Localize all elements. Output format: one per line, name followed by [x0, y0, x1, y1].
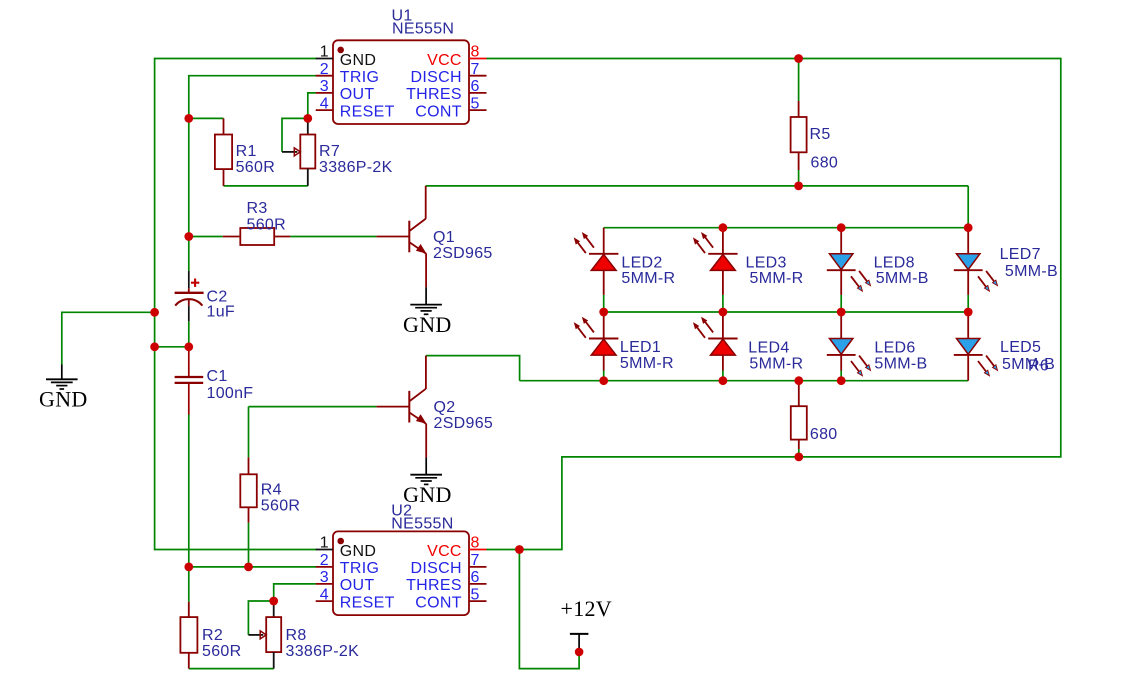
svg-text:3386P-2K: 3386P-2K	[319, 159, 393, 176]
svg-text:DISCH: DISCH	[411, 560, 462, 577]
wire R2-R8 bottom link	[189, 668, 274, 670]
svg-text:5MM-R: 5MM-R	[749, 355, 803, 372]
svg-text:R3: R3	[247, 200, 268, 217]
svg-text:LED1: LED1	[620, 339, 661, 356]
wire U1 pin3 OUT to R7 top	[308, 93, 316, 119]
U1 pin 8 stub	[469, 58, 487, 60]
svg-text:5: 5	[471, 586, 480, 603]
wire R3 left from junction	[189, 236, 223, 238]
svg-text:DISCH: DISCH	[411, 69, 462, 86]
svg-text:3: 3	[320, 569, 329, 586]
wire VCC loop: U1 pin8 right edge down and back to U2 pin8	[487, 59, 1061, 550]
svg-text:CONT: CONT	[415, 594, 462, 611]
junction R5 bottom	[794, 182, 803, 191]
svg-text:8: 8	[471, 535, 480, 552]
svg-text:7: 7	[471, 552, 480, 569]
wire U1 pin2 TRIG vertical column upper	[189, 76, 316, 271]
svg-text:GND: GND	[403, 312, 452, 337]
junction GND branch	[150, 308, 159, 317]
power +12V symbol	[570, 634, 589, 656]
resistor R5	[791, 101, 807, 170]
svg-text:1: 1	[320, 535, 329, 552]
LED7 blue	[954, 228, 998, 295]
svg-text:LED4: LED4	[748, 340, 789, 357]
wire link between verticals at y=346.8	[155, 346, 189, 348]
U1 pin 7 stub	[469, 75, 487, 77]
svg-text:560R: 560R	[261, 498, 300, 515]
svg-text:2SD965: 2SD965	[434, 415, 494, 432]
transistor Q2	[376, 356, 426, 458]
svg-text:4: 4	[320, 95, 329, 112]
U2 pin 8 stub	[469, 549, 487, 551]
svg-text:CONT: CONT	[415, 103, 462, 120]
U2 pin 6 stub	[469, 583, 487, 585]
svg-text:GND: GND	[39, 387, 88, 412]
svg-text:RESET: RESET	[340, 594, 395, 611]
svg-text:5MM-R: 5MM-R	[621, 270, 675, 287]
junction R1 / pin2 column	[184, 114, 193, 123]
junction mid rail LED8	[837, 308, 846, 317]
wire LED2 green tail	[603, 295, 605, 312]
U2 pin 1 stub	[316, 549, 333, 551]
wire R3 right to Q1 base	[290, 236, 376, 238]
wire LED4 green tail	[722, 371, 724, 381]
svg-text:R5: R5	[810, 126, 831, 143]
svg-text:C1: C1	[207, 368, 228, 385]
U1 pin 1 stub	[316, 58, 333, 60]
ground under Q2	[410, 457, 442, 484]
svg-text:R1: R1	[236, 143, 257, 160]
svg-text:Q2: Q2	[434, 399, 456, 416]
svg-text:5MM-R: 5MM-R	[750, 270, 804, 287]
wire between C2 and junction	[188, 321, 190, 347]
U1 pin numbers	[320, 44, 480, 113]
wire LED7 column link from rail	[967, 186, 969, 228]
U1 pin names	[340, 52, 462, 121]
junction mid rail LED3	[719, 308, 728, 317]
ground left	[46, 365, 78, 390]
op-amp U2 NE555N body	[333, 531, 469, 615]
junction bottom rail LED6	[837, 376, 846, 385]
svg-text:RESET: RESET	[340, 103, 395, 120]
wire below C1 to U2 pin2 junction	[188, 415, 190, 568]
svg-text:Q1: Q1	[433, 229, 455, 246]
svg-text:LED6: LED6	[874, 340, 915, 357]
trimmer R7	[282, 118, 315, 185]
wire R1-R7 bottom link	[224, 185, 308, 187]
wire R4 top green lead	[248, 407, 250, 458]
wire R1 top branch	[189, 117, 224, 119]
svg-text:1: 1	[320, 44, 329, 61]
junction LED3 top	[719, 223, 728, 232]
svg-text:GND: GND	[340, 52, 376, 69]
junction R3 branch	[184, 232, 193, 241]
svg-text:4: 4	[320, 586, 329, 603]
svg-text:OUT: OUT	[340, 86, 375, 103]
U2 pin 5 stub	[469, 600, 487, 602]
svg-text:560R: 560R	[202, 643, 241, 660]
wire R6 bottom green bit	[798, 449, 800, 457]
svg-text:5MM-B: 5MM-B	[874, 355, 927, 372]
wire U2 pin3 OUT to R8 top	[274, 584, 316, 601]
svg-text:5MM-R: 5MM-R	[620, 355, 674, 372]
svg-text:LED3: LED3	[746, 254, 787, 271]
junction R7 top	[303, 114, 312, 123]
junction bottom rail LED4	[719, 376, 728, 385]
U1 pin 6 stub	[469, 92, 487, 94]
svg-text:560R: 560R	[247, 216, 286, 233]
svg-text:GND: GND	[403, 482, 452, 507]
wire R8 wiper hook	[248, 601, 273, 635]
svg-text:LED7: LED7	[1000, 246, 1041, 263]
svg-text:+12V: +12V	[561, 596, 613, 621]
svg-text:5MM-B: 5MM-B	[876, 270, 929, 287]
wire Q1 collector rail y=185.9	[426, 185, 969, 187]
op-amp U1 NE555N body	[333, 40, 469, 124]
U1 pin 2 stub	[316, 75, 333, 77]
svg-text:GND: GND	[340, 543, 376, 560]
junction R6 top	[794, 376, 803, 385]
junction R8 top	[269, 597, 278, 606]
LED8 blue	[827, 228, 871, 295]
svg-text:TRIG: TRIG	[340, 69, 379, 86]
trimmer R8	[248, 601, 281, 669]
svg-text:6: 6	[471, 569, 480, 586]
svg-text:2SD965: 2SD965	[433, 245, 493, 262]
wire R5 top lead green	[798, 59, 800, 102]
svg-text:R8: R8	[286, 627, 307, 644]
svg-text:LED2: LED2	[621, 254, 662, 271]
svg-text:NE555N: NE555N	[392, 21, 454, 38]
svg-text:7: 7	[471, 61, 480, 78]
U2 pin 2 stub	[316, 566, 333, 568]
junction R5 top	[794, 54, 803, 63]
junction +12V branch	[515, 545, 524, 554]
wire U2 pin2 TRIG net	[189, 566, 316, 568]
wire LED top rail y=227.7	[604, 227, 969, 229]
svg-text:VCC: VCC	[427, 543, 462, 560]
svg-text:TRIG: TRIG	[340, 560, 379, 577]
capacitor C1	[175, 348, 204, 415]
svg-text:R7: R7	[319, 143, 340, 160]
wire Q2 base from R4 column	[249, 406, 377, 408]
svg-text:NE555N: NE555N	[391, 516, 453, 533]
wire net GND: U1 pin1 to U2 pin1 left vertical	[155, 59, 317, 550]
junction link right	[184, 342, 193, 351]
transistor Q1	[376, 186, 426, 287]
wire R5 bottom lead green	[798, 170, 800, 186]
LED5 blue	[954, 312, 998, 381]
svg-text:R2: R2	[202, 627, 223, 644]
U1 pin 4 stub	[316, 109, 333, 111]
junction R6 bottom	[794, 453, 803, 462]
svg-text:LED8: LED8	[874, 254, 915, 271]
svg-text:5MM-B: 5MM-B	[1002, 356, 1055, 373]
wire LED3 green tail	[722, 295, 724, 312]
wire +12V branch	[519, 550, 579, 669]
wire R2 top green lead	[188, 567, 190, 602]
junction U2 pin2 R4	[244, 563, 253, 572]
resistor R4	[240, 457, 256, 522]
svg-text:5MM-B: 5MM-B	[1005, 263, 1058, 280]
svg-text:560R: 560R	[236, 159, 275, 176]
U1 pin 5 stub	[469, 109, 487, 111]
U2 pin 3 stub	[316, 583, 333, 585]
LED3 red	[694, 228, 738, 295]
wire LED middle rail y=312	[604, 311, 969, 313]
svg-text:THRES: THRES	[406, 86, 462, 103]
resistor R1	[215, 118, 232, 185]
wire Q2 collector jog to bottom rail	[426, 356, 520, 381]
svg-text:2: 2	[320, 552, 329, 569]
junction LED8 top	[837, 223, 846, 232]
junction mid rail LED7	[964, 308, 973, 317]
LED1 red	[574, 312, 618, 371]
U2 pin 4 stub	[316, 600, 333, 602]
svg-text:680: 680	[811, 154, 839, 171]
resistor R6	[791, 381, 807, 449]
junction LED7 top	[964, 223, 973, 232]
svg-text:LED5: LED5	[1000, 339, 1041, 356]
junction U2 pin2 left	[184, 563, 193, 572]
junction mid rail LED2	[599, 308, 608, 317]
svg-text:2: 2	[320, 61, 329, 78]
wire LED bottom rail y=380.5	[520, 380, 969, 382]
ground under Q1	[410, 287, 442, 314]
svg-text:1uF: 1uF	[207, 304, 235, 321]
svg-text:8: 8	[471, 44, 480, 61]
U2 pin 7 stub	[469, 566, 487, 568]
wire LED1 green tail	[603, 371, 605, 381]
svg-text:OUT: OUT	[340, 577, 375, 594]
wire GND branch to left ground symbol	[62, 312, 155, 364]
capacitor C2 polarized	[175, 271, 204, 321]
U2 pin numbers	[320, 535, 480, 604]
wire R7 wiper hook	[282, 118, 308, 151]
svg-text:100nF: 100nF	[207, 385, 254, 402]
wire R4 bottom green lead	[248, 523, 250, 567]
U2 pin names	[340, 543, 462, 612]
resistor R3	[223, 228, 290, 245]
wire LED8 green tail	[840, 295, 842, 312]
svg-text:VCC: VCC	[427, 52, 462, 69]
svg-text:THRES: THRES	[406, 577, 462, 594]
LED6 blue	[827, 312, 871, 376]
LED4 red	[694, 312, 738, 371]
wire LED6 green tail	[840, 371, 842, 381]
U1 pin 3 stub	[316, 92, 333, 94]
svg-text:R4: R4	[261, 482, 282, 499]
resistor R2	[180, 602, 197, 669]
svg-text:3386P-2K: 3386P-2K	[286, 643, 360, 660]
svg-text:5: 5	[471, 95, 480, 112]
svg-text:6: 6	[471, 78, 480, 95]
svg-text:680: 680	[810, 426, 838, 443]
LED2 red	[574, 228, 618, 295]
wire LED7 green tail	[967, 295, 969, 312]
svg-text:3: 3	[320, 78, 329, 95]
junction link left	[150, 342, 159, 351]
junction bottom rail LED1	[599, 376, 608, 385]
